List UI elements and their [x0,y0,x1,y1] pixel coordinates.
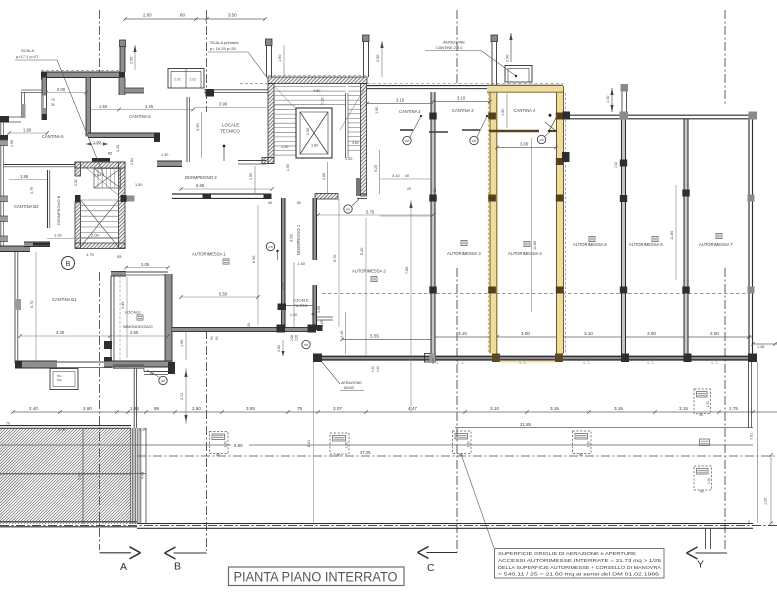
svg-text:3.55: 3.55 [246,406,255,411]
svg-text:CANTINA 5: CANTINA 5 [129,114,151,119]
svg-text:1.90: 1.90 [278,55,282,62]
svg-text:90: 90 [700,490,704,494]
svg-text:2.60: 2.60 [192,406,201,411]
svg-text:1.20: 1.20 [345,157,352,161]
svg-text:2.10: 2.10 [614,162,618,168]
svg-text:2.50: 2.50 [506,55,510,62]
svg-text:3.60: 3.60 [352,141,359,145]
svg-text:5.50: 5.50 [219,292,228,297]
svg-text:SCALA: SCALA [21,48,34,53]
svg-text:55: 55 [117,254,122,259]
svg-text:RB: RB [346,208,350,212]
svg-text:3.25: 3.25 [145,104,154,109]
svg-text:3.00: 3.00 [520,142,529,147]
svg-text:1.30: 1.30 [345,442,349,448]
svg-text:1.30: 1.30 [467,441,471,447]
svg-text:11.60: 11.60 [533,241,537,250]
svg-text:3.50: 3.50 [228,13,237,18]
svg-text:PIANTA PIANO INTERRATO: PIANTA PIANO INTERRATO [234,570,398,585]
svg-text:3.15: 3.15 [679,406,688,411]
svg-text:CANTINA 3: CANTINA 3 [452,108,474,113]
svg-text:2.40: 2.40 [436,358,440,364]
svg-text:1.65: 1.65 [317,306,321,313]
svg-text:2.50: 2.50 [130,57,134,64]
svg-text:9.25: 9.25 [374,165,378,172]
svg-text:2.50: 2.50 [130,330,139,335]
svg-text:90: 90 [210,336,214,340]
svg-text:2.40: 2.40 [29,406,38,411]
svg-text:1.20: 1.20 [764,498,768,505]
svg-text:AUTORIMESSA 4: AUTORIMESSA 4 [508,251,542,256]
svg-text:2.60: 2.60 [83,406,92,411]
svg-text:5.20: 5.20 [360,248,364,255]
svg-text:5.70: 5.70 [333,255,337,262]
svg-text:9: 9 [748,520,750,524]
svg-text:3.79: 3.79 [30,187,34,194]
svg-text:2.02: 2.02 [190,78,197,82]
svg-text:3.10: 3.10 [457,96,466,101]
svg-text:2.04: 2.04 [94,174,101,178]
svg-text:95: 95 [154,406,160,411]
svg-text:6.90: 6.90 [252,256,256,263]
svg-text:1.75: 1.75 [86,252,95,257]
svg-text:50: 50 [337,454,341,458]
svg-text:DISIMPEGNO 1: DISIMPEGNO 1 [296,224,301,255]
svg-text:2.45: 2.45 [340,331,344,338]
svg-text:1.40: 1.40 [606,96,610,103]
svg-text:ACCESSI AUTORIMESSE INTERRATE: ACCESSI AUTORIMESSE INTERRATE = 21.73 mq… [498,558,662,563]
svg-text:2.40: 2.40 [461,358,465,364]
svg-text:DISIMPEGNO B: DISIMPEGNO B [56,195,61,225]
svg-text:2.40: 2.40 [646,358,650,364]
svg-text:1.90: 1.90 [375,107,379,114]
svg-text:90: 90 [216,453,220,457]
svg-text:1.90: 1.90 [501,109,505,116]
svg-text:80: 80 [180,13,185,18]
svg-text:2.05: 2.05 [295,335,299,341]
svg-text:2.40: 2.40 [582,358,586,364]
svg-text:LOCALE: LOCALE [222,123,239,128]
svg-text:IMMONDEZZAIO: IMMONDEZZAIO [123,325,153,329]
svg-text:RB: RB [405,139,409,143]
svg-text:2.40: 2.40 [651,358,655,364]
svg-text:1.50: 1.50 [286,164,290,171]
svg-text:LOCALE: LOCALE [293,298,309,303]
svg-text:20: 20 [407,187,411,191]
svg-text:1.60: 1.60 [311,144,318,148]
svg-text:RB: RB [268,245,272,249]
svg-text:4.50: 4.50 [313,89,320,93]
svg-text:5.75: 5.75 [366,210,375,215]
svg-text:5.55: 5.55 [370,334,379,339]
svg-text:70: 70 [51,98,55,102]
svg-text:3.00: 3.00 [710,331,719,336]
svg-text:1.20: 1.20 [54,233,63,238]
svg-text:20: 20 [433,188,437,192]
svg-text:8.01: 8.01 [307,440,311,447]
svg-text:= 540.11 / 25 = 21.60 mq ai s: = 540.11 / 25 = 21.60 mq ai sensi del DM… [498,572,660,577]
svg-text:2.50: 2.50 [376,55,380,62]
svg-text:4.35: 4.35 [121,302,125,309]
svg-text:AERAZIONE: AERAZIONE [443,41,465,45]
svg-text:60x30: 60x30 [344,386,354,390]
svg-text:3.15: 3.15 [550,406,559,411]
svg-text:C: C [427,562,435,574]
svg-text:2.00: 2.00 [57,87,66,92]
svg-text:p=17.1 p=27: p=17.1 p=27 [16,54,39,59]
svg-text:85: 85 [108,152,112,156]
svg-text:1.90: 1.90 [180,340,184,347]
svg-text:4.93: 4.93 [141,472,145,479]
svg-text:1.80: 1.80 [322,173,326,180]
svg-text:45: 45 [311,313,315,317]
svg-text:AUTORIMESSA 6: AUTORIMESSA 6 [629,242,663,247]
svg-text:1.50: 1.50 [298,262,305,266]
svg-text:3.00: 3.00 [647,331,656,336]
svg-text:2.40: 2.40 [523,358,527,364]
svg-text:21.85: 21.85 [520,422,532,427]
svg-text:2.72: 2.72 [180,393,184,400]
svg-text:2.40: 2.40 [431,358,435,364]
svg-text:A: A [120,561,127,573]
svg-text:3.10: 3.10 [396,98,405,103]
svg-text:70: 70 [6,422,10,426]
svg-text:3.07: 3.07 [333,406,342,411]
svg-text:AUTORIMESSA 1: AUTORIMESSA 1 [192,252,226,257]
svg-text:3.10: 3.10 [490,406,499,411]
svg-text:1.38: 1.38 [757,345,764,349]
svg-text:2.40: 2.40 [710,358,714,364]
svg-text:7.20: 7.20 [321,98,325,105]
svg-text:30: 30 [51,103,55,107]
svg-text:1.50: 1.50 [135,183,142,187]
svg-text:CANTINA B1: CANTINA B1 [52,297,77,302]
svg-text:90: 90 [215,336,219,340]
svg-text:1.30: 1.30 [706,401,710,407]
svg-text:2.00: 2.00 [290,335,294,341]
svg-text:80: 80 [297,201,301,205]
svg-text:AUTORIMESSA 2: AUTORIMESSA 2 [352,269,386,274]
svg-text:1.20: 1.20 [281,145,288,149]
svg-text:Y: Y [697,559,704,571]
svg-text:CANTINE 2 3 4: CANTINE 2 3 4 [436,46,462,50]
svg-text:1.30: 1.30 [224,441,228,447]
svg-text:2.80: 2.80 [139,427,148,432]
svg-text:B: B [174,561,181,573]
svg-text:3.00: 3.00 [521,331,530,336]
svg-text:4.47: 4.47 [408,406,417,411]
svg-text:AUTORIMESSA 7: AUTORIMESSA 7 [699,242,733,247]
svg-text:2.00: 2.00 [306,128,310,135]
svg-text:TECNICO: TECNICO [220,129,240,134]
svg-text:75: 75 [297,406,303,411]
svg-text:1.50: 1.50 [99,104,108,109]
svg-text:1.50: 1.50 [277,345,281,352]
svg-text:SUPERFICIE GRIGLIE DI AERAZION: SUPERFICIE GRIGLIE DI AERAZIONE e APERTU… [498,551,636,556]
svg-text:20: 20 [247,323,251,327]
svg-text:37.25: 37.25 [360,450,371,455]
svg-text:1.30: 1.30 [587,441,591,447]
svg-text:CANTINA 2: CANTINA 2 [399,109,421,114]
svg-text:9.40: 9.40 [376,366,380,372]
svg-text:6.90: 6.90 [234,443,243,448]
svg-text:1.95: 1.95 [10,140,14,147]
svg-text:5.65: 5.65 [196,183,205,188]
svg-text:1.50: 1.50 [290,313,297,317]
svg-text:3.15: 3.15 [614,406,623,411]
svg-text:9.40: 9.40 [371,366,375,372]
svg-text:2.40: 2.40 [518,358,522,364]
svg-text:5.00: 5.00 [78,473,82,480]
svg-text:1.50: 1.50 [249,173,253,180]
svg-text:DISIMPEGNO 2: DISIMPEGNO 2 [185,175,217,180]
svg-text:2.84: 2.84 [130,158,134,165]
svg-text:3.10: 3.10 [584,331,593,336]
svg-text:2.52: 2.52 [74,179,78,186]
svg-text:RB: RB [161,379,165,383]
svg-text:2.47: 2.47 [280,281,285,290]
svg-text:1.95: 1.95 [20,174,29,179]
svg-text:p= 16.25 p=30: p= 16.25 p=30 [210,46,237,51]
svg-text:RB: RB [539,138,543,142]
svg-text:1.65: 1.65 [320,320,324,327]
svg-text:1.90: 1.90 [23,128,32,133]
svg-text:3.10: 3.10 [392,173,401,178]
svg-text:3.90: 3.90 [219,102,228,107]
svg-text:50h: 50h [57,378,62,382]
svg-text:7.65: 7.65 [405,267,409,274]
svg-text:AERAZIONE: AERAZIONE [341,381,362,385]
svg-text:3.90: 3.90 [195,122,200,131]
svg-text:2.40: 2.40 [456,358,460,364]
svg-text:1.30: 1.30 [707,478,711,484]
svg-text:2.40: 2.40 [587,358,591,364]
svg-text:LOCALE: LOCALE [125,310,141,315]
svg-text:5.70: 5.70 [30,301,34,308]
svg-text:B: B [66,261,71,268]
svg-text:3.10: 3.10 [458,331,467,336]
svg-text:7.91: 7.91 [750,433,754,440]
svg-text:RB: RB [304,343,308,347]
svg-text:40: 40 [268,201,272,205]
svg-text:1.20: 1.20 [116,145,120,152]
svg-text:2.00: 2.00 [91,233,100,238]
svg-text:3.63: 3.63 [289,233,294,242]
svg-text:CANTINA 4: CANTINA 4 [514,108,536,113]
svg-text:11.60: 11.60 [670,231,674,240]
svg-text:90: 90 [579,453,583,457]
svg-text:2.02: 2.02 [174,78,181,82]
svg-text:1.75: 1.75 [729,406,738,411]
svg-text:90: 90 [699,413,703,417]
svg-text:AUTORIMESSA 3: AUTORIMESSA 3 [447,251,481,256]
svg-text:40: 40 [405,174,409,178]
svg-text:AUTORIMESSA 5: AUTORIMESSA 5 [573,242,607,247]
svg-text:5.00: 5.00 [58,427,67,432]
svg-text:1.85: 1.85 [130,406,139,411]
svg-text:4.30: 4.30 [56,330,65,335]
svg-text:2.60: 2.60 [143,13,152,18]
svg-text:CANTINA B2: CANTINA B2 [14,204,39,209]
svg-text:RB: RB [472,139,476,143]
svg-text:SCALA primaria: SCALA primaria [210,40,239,45]
svg-text:DELLA SUPERFICIE AUTORIMESSE +: DELLA SUPERFICIE AUTORIMESSE + CORSELLO … [498,565,661,570]
svg-text:2.05: 2.05 [141,262,150,267]
svg-text:2.40: 2.40 [715,358,719,364]
svg-text:1.30: 1.30 [161,153,168,157]
